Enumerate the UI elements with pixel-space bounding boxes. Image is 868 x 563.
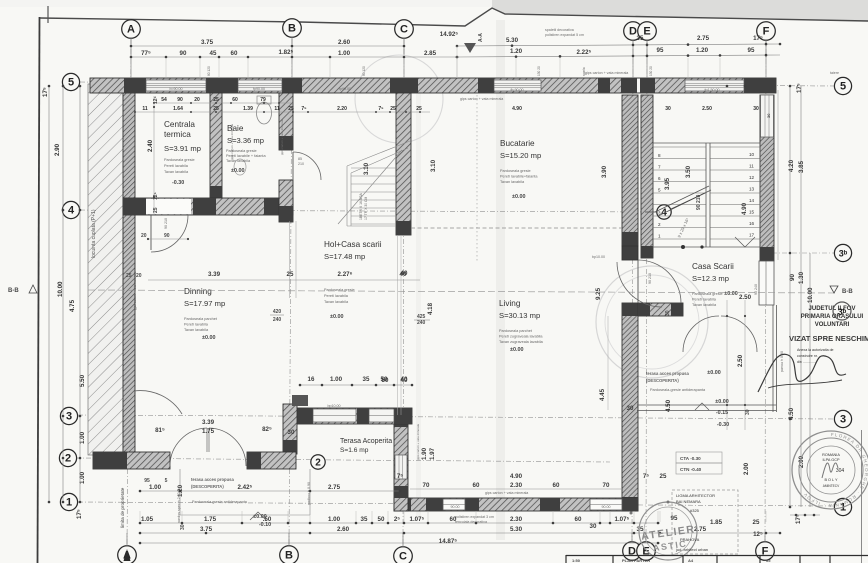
svg-text:Pardoseala gresie: Pardoseala gresie	[500, 169, 531, 173]
svg-text:PRIMARIA ORASULUI: PRIMARIA ORASULUI	[801, 314, 864, 320]
svg-text:60: 60	[450, 516, 457, 523]
svg-text:12⁵: 12⁵	[153, 191, 159, 200]
svg-text:12⁵: 12⁵	[753, 531, 763, 538]
svg-text:210: 210	[298, 162, 304, 166]
svg-text:20: 20	[136, 273, 142, 279]
svg-text:3: 3	[66, 411, 72, 423]
grid circle 1	[60, 493, 77, 510]
french doors terrace east	[683, 316, 719, 352]
svg-text:5: 5	[68, 77, 74, 89]
svg-text:16: 16	[749, 221, 755, 226]
svg-text:20: 20	[194, 97, 200, 103]
svg-text:4.20: 4.20	[788, 159, 795, 172]
svg-text:30: 30	[180, 524, 186, 530]
living west wall	[394, 415, 408, 511]
svg-text:B O L Y: B O L Y	[824, 478, 838, 482]
svg-text:1.30: 1.30	[798, 271, 805, 284]
bottom dimension rows	[140, 490, 400, 492]
svg-text:60: 60	[232, 97, 238, 103]
svg-text:11: 11	[749, 164, 754, 169]
svg-text:17⁵: 17⁵	[42, 87, 49, 97]
svg-text:taiere: taiere	[830, 71, 839, 75]
svg-text:3ᵇ: 3ᵇ	[838, 307, 847, 317]
svg-text:3.10: 3.10	[430, 159, 437, 172]
grid circle 4	[62, 201, 79, 218]
neighbour building hatched band (locuinta cuplata)	[88, 84, 123, 455]
svg-text:2.40: 2.40	[147, 139, 154, 152]
svg-text:Pardoseala parchet: Pardoseala parchet	[499, 329, 533, 333]
svg-text:Pardoseala gresie: Pardoseala gresie	[226, 149, 257, 153]
round architect stamp	[792, 431, 868, 509]
scan top gray band	[492, 0, 868, 21]
svg-text:2.75: 2.75	[328, 484, 341, 491]
svg-text:2: 2	[658, 222, 661, 227]
french doors Dining	[170, 428, 207, 466]
svg-text:25: 25	[287, 271, 294, 278]
axis leader lines	[127, 37, 766, 547]
grid circle 5	[62, 73, 79, 90]
window axis dotted line	[476, 95, 478, 262]
grid circle F	[757, 22, 776, 41]
svg-text:gips carton + vata minerala: gips carton + vata minerala	[280, 119, 284, 155]
door Centrala termica	[150, 215, 152, 250]
ligma dashed box	[672, 490, 738, 554]
stair numbers	[658, 152, 755, 239]
svg-text:tencuiala decorativa: tencuiala decorativa	[455, 520, 487, 524]
svg-text:90.00: 90.00	[602, 505, 611, 509]
grid circle 2	[311, 455, 325, 469]
svg-text:bp10.00: bp10.00	[592, 255, 605, 259]
svg-text:Tavan lavabila: Tavan lavabila	[324, 300, 349, 304]
svg-text:9.25: 9.25	[595, 287, 602, 300]
svg-text:-0.10: -0.10	[259, 522, 271, 528]
svg-text:90 210: 90 210	[648, 273, 652, 284]
svg-text:10: 10	[749, 152, 755, 157]
grid circle B	[283, 19, 302, 38]
stair central divider	[705, 143, 707, 247]
top wall windows	[146, 80, 206, 91]
svg-text:7: 7	[658, 165, 661, 170]
grid circle 3	[834, 410, 851, 427]
svg-text:AMINTECV: AMINTECV	[823, 484, 840, 488]
svg-text:3.95: 3.95	[664, 177, 671, 190]
left vertical dims	[42, 87, 154, 519]
svg-text:b=90.00: b=90.00	[169, 87, 182, 91]
svg-text:05: 05	[766, 558, 771, 563]
svg-text:4.45: 4.45	[599, 388, 606, 401]
svg-text:fb 90.00: fb 90.00	[511, 88, 524, 92]
svg-text:17: 17	[749, 233, 755, 238]
svg-text:60: 60	[575, 516, 582, 523]
svg-text:90: 90	[164, 233, 170, 239]
terasa acoperita north wall	[284, 408, 412, 424]
svg-text:30: 30	[288, 429, 295, 436]
svg-text:90: 90	[180, 50, 187, 57]
svg-text:2.27⁶: 2.27⁶	[338, 271, 353, 278]
svg-text:1BETR X 16.6/3A: 1BETR X 16.6/3A	[359, 192, 363, 220]
svg-text:CTN -0.40: CTN -0.40	[680, 467, 702, 472]
grid circle 5	[834, 77, 851, 94]
svg-text:gips carton + vata minerala: gips carton + vata minerala	[585, 71, 628, 75]
svg-text:7⁵: 7⁵	[301, 106, 307, 112]
SW terrace outline	[179, 469, 181, 515]
stair treads	[653, 147, 760, 239]
svg-text:din ..............: din ..............	[797, 360, 817, 364]
svg-text:2.75: 2.75	[697, 35, 710, 42]
svg-text:25: 25	[753, 519, 760, 526]
svg-text:JUDETUL ILFOV: JUDETUL ILFOV	[809, 306, 856, 312]
mid house dim row (under terrace)	[0, 0, 1, 1]
house left wall	[123, 84, 135, 455]
svg-text:A-A: A-A	[478, 33, 484, 42]
svg-text:2.60: 2.60	[337, 526, 350, 533]
svg-text:2.30: 2.30	[510, 482, 523, 489]
svg-text:5.30: 5.30	[510, 526, 523, 533]
svg-text:3.39: 3.39	[202, 419, 215, 426]
slab above dashed line kitchen	[411, 227, 622, 229]
svg-text:70: 70	[423, 482, 430, 489]
living east wall	[622, 303, 638, 511]
svg-text:11: 11	[274, 106, 280, 112]
wall Hol / Bucatarie	[396, 93, 411, 235]
svg-text:2: 2	[65, 453, 71, 465]
svg-text:spaletii decorativa: spaletii decorativa	[545, 28, 574, 32]
svg-text:60: 60	[231, 50, 238, 57]
CTA/CTN levels	[676, 452, 722, 463]
svg-text:C: C	[400, 24, 408, 36]
grid circle 3	[60, 407, 77, 424]
svg-text:3: 3	[840, 414, 846, 426]
svg-text:Pereti lavabila: Pereti lavabila	[184, 323, 209, 327]
scan streak vertical	[496, 20, 505, 540]
svg-text:BAI NEMARA: BAI NEMARA	[676, 499, 701, 504]
svg-text:240: 240	[273, 317, 282, 323]
svg-text:1.39: 1.39	[243, 106, 253, 112]
living south wall	[394, 498, 638, 511]
stair down mark	[735, 237, 755, 247]
terasa acoperita west wall	[283, 404, 297, 454]
fold tick top left	[47, 6, 49, 23]
svg-text:fp90.00: fp90.00	[253, 87, 265, 91]
svg-text:4: 4	[68, 205, 75, 217]
svg-text:95: 95	[144, 478, 150, 484]
svg-text:LIGMA ARHITECTOR: LIGMA ARHITECTOR	[676, 493, 715, 498]
svg-text:±0.00: ±0.00	[231, 168, 244, 174]
svg-text:Tavan zugraveala lavabila: Tavan zugraveala lavabila	[499, 340, 544, 344]
title block bottom	[566, 555, 868, 563]
door at stair base	[617, 262, 662, 307]
svg-text:25: 25	[126, 273, 132, 279]
svg-text:3.39: 3.39	[208, 271, 221, 278]
wall south of Centrala/Baie	[123, 198, 293, 215]
svg-text:17⁵: 17⁵	[76, 509, 83, 519]
svg-text:Bucatarie: Bucatarie	[500, 139, 535, 148]
terrace south edge	[637, 404, 776, 406]
svg-text:ROMANIA: ROMANIA	[822, 453, 840, 457]
svg-text:Tavan lavabila: Tavan lavabila	[164, 170, 189, 174]
svg-text:30: 30	[590, 523, 597, 530]
Baie east wall upper	[279, 93, 293, 150]
svg-text:2.30: 2.30	[510, 516, 523, 523]
svg-text:14.92⁵: 14.92⁵	[440, 31, 458, 38]
svg-text:S=17.97 mp: S=17.97 mp	[184, 299, 225, 308]
svg-text:1.07⁵: 1.07⁵	[615, 516, 630, 523]
svg-text:termica: termica	[164, 130, 191, 139]
svg-text:S=3.36 mp: S=3.36 mp	[227, 136, 264, 145]
svg-text:30: 30	[766, 113, 771, 118]
svg-text:S=17.48 mp: S=17.48 mp	[324, 252, 365, 261]
page right border line	[861, 430, 863, 563]
grid circle E	[637, 542, 656, 561]
west wall window	[395, 455, 407, 479]
top wall piers	[124, 78, 146, 93]
svg-text:1.90: 1.90	[421, 447, 428, 460]
extension lines top	[131, 46, 766, 78]
svg-text:6: 6	[658, 176, 661, 181]
svg-text:1: 1	[658, 234, 661, 239]
svg-text:Pereti lavabile + faianta: Pereti lavabile + faianta	[226, 154, 266, 158]
dining south wall west part	[93, 452, 170, 469]
svg-text:Tavan lavabila: Tavan lavabila	[226, 159, 251, 163]
svg-text:Pereti lavabile+faianta: Pereti lavabile+faianta	[500, 175, 538, 179]
svg-text:2.50: 2.50	[737, 354, 744, 367]
door Hol to Casa Scarii	[638, 260, 681, 303]
svg-text:60: 60	[473, 482, 480, 489]
svg-text:Pardoseala gresie: Pardoseala gresie	[164, 158, 195, 162]
svg-text:Pardoseala gresie: Pardoseala gresie	[324, 288, 355, 292]
svg-text:Pereti lavabila: Pereti lavabila	[324, 294, 349, 298]
top exterior wall	[90, 78, 776, 93]
svg-text:50: 50	[382, 377, 389, 384]
svg-text:25: 25	[390, 106, 396, 112]
grid circle B	[280, 546, 299, 563]
svg-text:70: 70	[603, 482, 610, 489]
svg-text:4.75: 4.75	[69, 299, 76, 312]
svg-text:5: 5	[658, 188, 661, 193]
svg-text:±0.00: ±0.00	[510, 347, 523, 353]
svg-text:VOLUNTARI: VOLUNTARI	[815, 322, 850, 328]
bath fixtures	[257, 102, 272, 124]
svg-text:304: 304	[836, 468, 845, 474]
svg-text:4.50: 4.50	[665, 399, 672, 412]
svg-text:14.87⁵: 14.87⁵	[439, 538, 457, 545]
living south windows	[443, 499, 465, 510]
svg-text:30: 30	[665, 310, 671, 316]
svg-text:1.07⁵: 1.07⁵	[410, 516, 425, 523]
terrace west face line	[607, 316, 609, 410]
svg-text:S=3.91 mp: S=3.91 mp	[164, 144, 201, 153]
svg-text:S=12.3 mp: S=12.3 mp	[692, 274, 729, 283]
svg-text:A4: A4	[688, 558, 694, 563]
svg-text:10.00: 10.00	[807, 287, 814, 303]
grid circle C	[394, 547, 413, 563]
svg-text:80 120: 80 120	[207, 66, 211, 76]
svg-text:240: 240	[417, 320, 426, 326]
Baie east wall lower	[279, 180, 293, 222]
interior vertical dims	[0, 0, 1, 1]
svg-text:Terasa Acoperita: Terasa Acoperita	[340, 438, 392, 445]
svg-text:3.50: 3.50	[685, 165, 692, 178]
svg-text:pardos spec h 2.40: pardos spec h 2.40	[177, 492, 181, 523]
svg-text:E: E	[643, 26, 650, 38]
svg-text:30: 30	[745, 409, 751, 415]
svg-text:gips carton + vata minerala: gips carton + vata minerala	[485, 491, 528, 495]
svg-text:S=1.6 mp: S=1.6 mp	[340, 447, 369, 454]
svg-text:VIZAT SPRE NESCHIMB: VIZAT SPRE NESCHIMB	[789, 334, 868, 343]
svg-text:terasa acces propusa: terasa acces propusa	[191, 477, 235, 482]
svg-text:40: 40	[401, 377, 408, 384]
primaria stamp text	[801, 306, 864, 328]
svg-text:1.75: 1.75	[202, 428, 215, 435]
svg-text:±0.00: ±0.00	[724, 291, 737, 297]
svg-text:1.00: 1.00	[338, 50, 351, 57]
svg-text:Pardoseala-gresie antiderapant: Pardoseala-gresie antiderapanta	[650, 388, 706, 392]
svg-text:1:50: 1:50	[572, 558, 581, 563]
svg-text:79: 79	[260, 97, 266, 103]
svg-text:Living: Living	[499, 299, 521, 308]
svg-text:fp99.00: fp99.00	[339, 87, 351, 91]
svg-text:35: 35	[637, 35, 644, 42]
svg-text:7⁵: 7⁵	[643, 473, 649, 480]
grid circle 2	[59, 449, 76, 466]
atelier ellipse stamp	[639, 502, 697, 560]
svg-text:limita de proprietate: limita de proprietate	[120, 487, 125, 528]
svg-text:77⁵: 77⁵	[141, 50, 151, 57]
svg-text:B: B	[288, 23, 296, 35]
bottom-right dim dots	[790, 514, 820, 516]
svg-text:B: B	[285, 550, 293, 562]
grid circle F	[756, 542, 775, 561]
dining south wall east part	[247, 452, 296, 469]
svg-text:Baie: Baie	[227, 124, 244, 133]
grid axis lines	[76, 39, 835, 546]
svg-text:Pereti lavabila: Pereti lavabila	[164, 164, 189, 168]
svg-text:Pardoseala parchet: Pardoseala parchet	[184, 317, 218, 321]
svg-text:3.85: 3.85	[798, 160, 805, 173]
svg-text:3.90: 3.90	[601, 165, 608, 178]
frame top border	[40, 8, 868, 26]
stairwell west wall cap	[622, 246, 638, 260]
right vertical dims	[665, 83, 814, 524]
svg-text:30: 30	[665, 106, 671, 112]
terrace east parapet	[772, 305, 774, 412]
faint stamp watermark circle	[596, 266, 708, 378]
casa scarii south wall	[638, 303, 683, 316]
interior dim rows under top wall	[142, 97, 759, 112]
svg-text:3ᵇ: 3ᵇ	[839, 249, 848, 259]
grid circle A	[122, 20, 141, 39]
svg-text:Dinning: Dinning	[184, 287, 212, 296]
svg-text:1.00: 1.00	[330, 376, 343, 383]
svg-text:90 240: 90 240	[754, 284, 758, 295]
door lower-left terrace	[134, 391, 182, 414]
grid circle D	[623, 542, 642, 561]
grid circle 1	[834, 498, 851, 515]
svg-text:17⁵: 17⁵	[796, 83, 803, 93]
svg-text:25: 25	[416, 106, 422, 112]
svg-text:60: 60	[553, 482, 560, 489]
svg-text:Anexa la autorizatia de: Anexa la autorizatia de	[797, 348, 834, 352]
svg-text:±0.00: ±0.00	[512, 194, 525, 200]
svg-text:2.85: 2.85	[424, 50, 437, 57]
svg-text:Casa Scarii: Casa Scarii	[692, 262, 734, 271]
wall between Centrala termica and Baie	[210, 93, 222, 198]
frame left border	[38, 17, 40, 563]
grid circle C	[395, 20, 414, 39]
svg-text:90.00: 90.00	[451, 505, 460, 509]
svg-text:40: 40	[401, 270, 408, 277]
svg-text:2.22⁵: 2.22⁵	[577, 49, 592, 56]
svg-text:2.00: 2.00	[743, 462, 750, 475]
svg-text:35: 35	[363, 376, 370, 383]
svg-text:±0.00: ±0.00	[202, 335, 215, 341]
svg-text:90 210: 90 210	[696, 194, 702, 210]
svg-text:30: 30	[627, 405, 634, 412]
small dim column x154	[153, 96, 155, 215]
svg-text:130 20: 130 20	[537, 66, 541, 76]
svg-text:PRAHOVA: PRAHOVA	[680, 537, 700, 542]
terrace dim leaders	[726, 300, 728, 430]
svg-text:2: 2	[315, 458, 321, 469]
svg-text:3.10: 3.10	[363, 162, 370, 175]
svg-text:85: 85	[298, 157, 302, 161]
svg-text:Centrala: Centrala	[164, 120, 195, 129]
svg-text:gips carton + vata minerala: gips carton + vata minerala	[460, 97, 503, 101]
grid circle 3&#7495;	[834, 244, 851, 261]
svg-text:5.30: 5.30	[506, 37, 519, 44]
grid circle D	[624, 22, 643, 41]
svg-text:2.42⁵: 2.42⁵	[238, 484, 253, 491]
svg-text:-0.30: -0.30	[717, 422, 729, 428]
svg-text:-0.15: -0.15	[716, 410, 728, 416]
svg-text:Pereti zugraveala lavabila: Pereti zugraveala lavabila	[499, 335, 543, 339]
svg-text:1.20: 1.20	[510, 48, 523, 55]
stair above dashed outline	[338, 141, 410, 226]
svg-text:12: 12	[749, 175, 755, 180]
section mark B-B right	[830, 286, 838, 293]
door Baie	[293, 152, 321, 180]
svg-text:4.90: 4.90	[510, 473, 523, 480]
svg-text:420: 420	[273, 309, 282, 315]
svg-text:5: 5	[165, 478, 168, 484]
svg-text:25: 25	[153, 207, 159, 213]
extension lines bottom	[140, 511, 766, 522]
svg-text:polistiren expandat 5 cm: polistiren expandat 5 cm	[545, 33, 584, 37]
svg-text:130 20: 130 20	[649, 66, 653, 76]
svg-text:14: 14	[749, 198, 755, 203]
grid circle 4	[657, 205, 671, 219]
stairwell east wall	[760, 95, 774, 261]
svg-text:(DESCOPERITA): (DESCOPERITA)	[191, 484, 224, 489]
svg-text:2.90: 2.90	[54, 143, 61, 156]
svg-text:3.75: 3.75	[200, 526, 213, 533]
svg-text:1.97: 1.97	[429, 447, 436, 460]
svg-text:13: 13	[749, 187, 755, 192]
svg-text:7⁵: 7⁵	[378, 106, 384, 112]
grid circle A	[118, 546, 137, 563]
svg-text:2.60: 2.60	[338, 39, 351, 46]
svg-text:95: 95	[657, 47, 664, 54]
hol/living face lines	[397, 235, 399, 415]
svg-text:PLAN PARTER: PLAN PARTER	[622, 558, 650, 563]
svg-text:5: 5	[840, 81, 846, 93]
svg-text:S=30.13 mp: S=30.13 mp	[499, 311, 540, 320]
svg-text:Hol+Casa scarii: Hol+Casa scarii	[324, 240, 382, 249]
svg-text:4.18: 4.18	[427, 302, 434, 315]
svg-text:Tavan lavabila: Tavan lavabila	[184, 328, 209, 332]
svg-text:17 TR X 30 CM: 17 TR X 30 CM	[364, 197, 368, 220]
svg-text:80 120: 80 120	[362, 66, 366, 76]
